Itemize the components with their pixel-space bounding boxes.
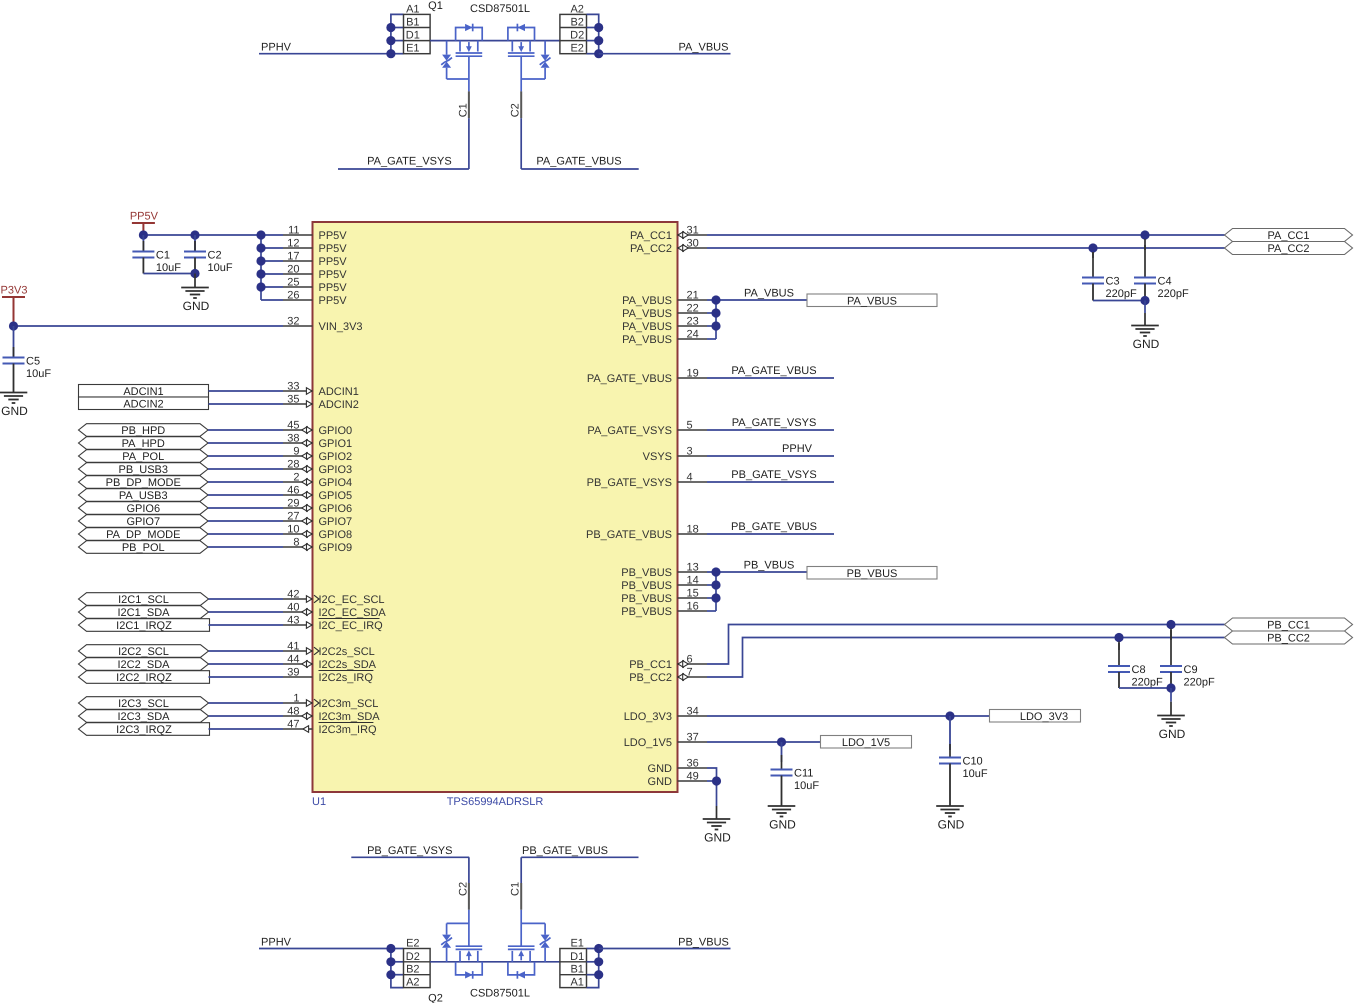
wire ADCIN1 (209, 390, 284, 392)
Q1 left pin box (404, 3, 431, 54)
svg-text:PP5V: PP5V (319, 295, 348, 307)
svg-text:C4: C4 (1158, 276, 1172, 288)
wire PPHV stub (707, 455, 834, 457)
svg-text:E1: E1 (406, 43, 419, 55)
svg-text:PB_GATE_VBUS: PB_GATE_VBUS (731, 521, 817, 533)
wire GPIO6 (208, 507, 283, 509)
svg-text:E2: E2 (570, 43, 583, 55)
junction dots PB_CC (1114, 620, 1175, 642)
svg-text:PA_GATE_VBUS: PA_GATE_VBUS (731, 365, 816, 377)
wire PA_USB3 (208, 494, 283, 496)
net flag PB_POL (79, 541, 209, 554)
svg-text:B1: B1 (406, 17, 419, 29)
junction dots Q2 left bus (386, 944, 395, 979)
wire PB_HPD (208, 429, 283, 431)
pin 49 GND (right) (648, 771, 707, 789)
svg-text:I2C3_SDA: I2C3_SDA (118, 711, 171, 723)
svg-text:14: 14 (687, 575, 699, 587)
svg-text:47: 47 (287, 719, 299, 731)
net flag I2C3_SDA (79, 710, 209, 723)
pin 33 ADCIN1 (left) (283, 381, 359, 399)
svg-text:13: 13 (687, 562, 699, 574)
svg-text:I2C3m_SCL: I2C3m_SCL (319, 698, 379, 710)
svg-text:15: 15 (687, 588, 699, 600)
svg-text:PA_CC1: PA_CC1 (1268, 230, 1310, 242)
pin 23 PA_VBUS (right) (622, 316, 707, 334)
svg-text:GPIO1: GPIO1 (319, 438, 353, 450)
svg-text:16: 16 (687, 601, 699, 613)
svg-text:PB_GATE_VSYS: PB_GATE_VSYS (367, 845, 452, 857)
pin 38 GPIO1 (left) (283, 433, 352, 451)
svg-text:220pF: 220pF (1184, 677, 1215, 689)
net flag I2C2_IRQZ (79, 671, 210, 684)
svg-text:PB_VBUS: PB_VBUS (847, 568, 898, 580)
svg-text:PB_VBUS: PB_VBUS (678, 936, 729, 948)
svg-text:PB_POL: PB_POL (122, 542, 165, 554)
svg-text:C2: C2 (208, 250, 222, 262)
Q1 TVS right (521, 41, 550, 79)
pin 25 PP5V (left) (283, 277, 347, 295)
svg-text:36: 36 (687, 758, 699, 770)
svg-text:11: 11 (288, 225, 299, 237)
svg-text:PPHV: PPHV (261, 936, 292, 948)
svg-text:20: 20 (287, 264, 299, 276)
pin 20 PP5V (left) (283, 264, 347, 282)
wire PB_CC2 (707, 638, 1225, 678)
svg-text:PP5V: PP5V (130, 211, 159, 223)
pin 14 PB_VBUS (right) (621, 575, 707, 593)
svg-text:PP5V: PP5V (319, 243, 348, 255)
svg-text:46: 46 (287, 485, 299, 497)
svg-text:C2: C2 (457, 882, 469, 896)
net flag I2C1_IRQZ (79, 619, 210, 632)
svg-text:21: 21 (687, 290, 699, 302)
pin 2 GPIO4 (left) (283, 472, 352, 490)
svg-text:PB_GATE_VSYS: PB_GATE_VSYS (587, 477, 672, 489)
svg-text:PB_DP_MODE: PB_DP_MODE (106, 477, 181, 489)
svg-text:PA_HPD: PA_HPD (122, 438, 165, 450)
svg-text:41: 41 (287, 641, 299, 653)
power port P3V3 (1, 285, 28, 327)
svg-text:C1: C1 (156, 250, 170, 262)
svg-text:19: 19 (687, 368, 699, 380)
svg-text:PA_VBUS: PA_VBUS (622, 321, 672, 333)
pin 12 PP5V (left) (283, 238, 347, 256)
wire PB_VBUS bus (707, 572, 807, 611)
wire C1-C2 ground join (143, 269, 199, 278)
svg-text:D1: D1 (406, 30, 420, 42)
svg-text:PA_CC2: PA_CC2 (1268, 243, 1310, 255)
junction dots PB_VBUS (711, 567, 720, 602)
svg-text:GPIO7: GPIO7 (126, 516, 160, 528)
svg-text:D2: D2 (570, 30, 584, 42)
svg-text:18: 18 (687, 524, 699, 536)
ground GND under C10 (936, 806, 964, 832)
svg-text:I2C_EC_SCL: I2C_EC_SCL (319, 594, 385, 606)
pin 46 GPIO5 (left) (283, 485, 352, 503)
svg-text:27: 27 (287, 511, 299, 523)
pin 7 PB_CC2 (right) (629, 667, 707, 685)
wire PA_GATE_VBUS (521, 168, 639, 170)
svg-text:PB_GATE_VBUS: PB_GATE_VBUS (586, 529, 672, 541)
svg-text:22: 22 (687, 303, 699, 315)
svg-text:C1: C1 (457, 103, 469, 117)
wire C8-C9 ground join (1119, 683, 1176, 692)
svg-text:PB_VBUS: PB_VBUS (621, 580, 672, 592)
pin 5 PA_GATE_VSYS (right) (587, 420, 707, 438)
wire PB_GATE_VBUS (521, 856, 638, 858)
Q1 right pin box (560, 3, 587, 54)
pin 28 GPIO3 (left) (283, 459, 352, 477)
pin 18 PB_GATE_VBUS (right) (586, 524, 707, 542)
wire PB_POL (208, 546, 283, 548)
net flag PA_HPD (79, 437, 209, 450)
svg-text:PA_CC1: PA_CC1 (630, 230, 672, 242)
pin 35 ADCIN2 (left) (283, 394, 359, 412)
svg-text:PA_USB3: PA_USB3 (119, 490, 168, 502)
wire PB_DP_MODE (208, 481, 283, 483)
Q2 TVS right (521, 923, 550, 961)
svg-text:PB_GATE_VSYS: PB_GATE_VSYS (731, 469, 816, 481)
wire PP5V (143, 235, 283, 300)
capacitor C11 10uF (771, 742, 820, 806)
svg-text:GND: GND (769, 818, 796, 832)
svg-text:CSD87501L: CSD87501L (470, 3, 530, 15)
net flag PB_USB3 (79, 463, 209, 476)
svg-text:PB_CC1: PB_CC1 (1267, 620, 1310, 632)
ground GND under C8 C9 (1157, 688, 1185, 741)
svg-text:I2C2_IRQZ: I2C2_IRQZ (116, 672, 172, 684)
wire LDO_3V3 (707, 711, 990, 720)
ground GND under C2 (181, 274, 209, 314)
wire I2C2_IRQZ (209, 676, 284, 678)
svg-text:C1: C1 (510, 882, 522, 896)
net label box PA_VBUS (807, 294, 937, 307)
svg-text:C2: C2 (510, 103, 522, 117)
svg-text:PB_HPD: PB_HPD (121, 425, 165, 437)
svg-text:PP5V: PP5V (319, 230, 348, 242)
svg-text:B1: B1 (570, 964, 583, 976)
wire I2C3_IRQZ (209, 728, 284, 730)
capacitor C8 220pF (1108, 642, 1163, 689)
svg-text:42: 42 (287, 589, 299, 601)
svg-text:10uF: 10uF (156, 262, 181, 274)
pin 41 I2C2s_SCL (left) (283, 641, 375, 659)
svg-text:PA_POL: PA_POL (122, 451, 164, 463)
wire PPHV to Q2 (259, 948, 391, 950)
pin 21 PA_VBUS (right) (622, 290, 707, 308)
svg-text:E1: E1 (570, 938, 583, 950)
svg-text:GND: GND (938, 818, 965, 832)
pin 32 VIN_3V3 (left) (283, 316, 363, 334)
svg-text:PB_CC2: PB_CC2 (629, 672, 672, 684)
wire LDO_1V5 (707, 737, 821, 746)
net label box ADCIN1 (79, 385, 209, 398)
svg-text:I2C3_IRQZ: I2C3_IRQZ (116, 724, 172, 736)
svg-text:GND: GND (648, 776, 673, 788)
svg-text:I2C2s_SCL: I2C2s_SCL (319, 646, 375, 658)
svg-text:PPHV: PPHV (261, 42, 292, 54)
wire I2C1_SCL (209, 598, 284, 600)
svg-text:10: 10 (287, 524, 299, 536)
wire PB_CC1 (707, 625, 1225, 665)
svg-text:C9: C9 (1184, 664, 1198, 676)
svg-text:29: 29 (287, 498, 299, 510)
svg-text:PP5V: PP5V (319, 282, 348, 294)
svg-text:A2: A2 (570, 3, 583, 15)
svg-text:GND: GND (704, 831, 731, 845)
wire PB_VBUS (599, 948, 731, 950)
net flag GPIO6 (79, 502, 209, 515)
svg-text:CSD87501L: CSD87501L (470, 988, 530, 1000)
net flag PB_CC2 (1225, 631, 1353, 645)
transistor Q2 CSD87501L designators (428, 988, 530, 1005)
net flag I2C1_SCL (79, 593, 209, 606)
net flag I2C2_SCL (79, 645, 209, 658)
net label box PB_VBUS (807, 567, 937, 580)
svg-text:C10: C10 (963, 756, 983, 768)
pin 11 PP5V (left) (283, 225, 347, 243)
svg-text:I2C2_SDA: I2C2_SDA (118, 659, 171, 671)
wire PA_GATE_VSYS (338, 168, 469, 170)
pin 37 LDO_1V5 (right) (624, 732, 707, 750)
net label box LDO_1V5 (821, 736, 912, 749)
svg-text:GPIO0: GPIO0 (319, 425, 353, 437)
svg-text:PP5V: PP5V (319, 256, 348, 268)
svg-text:9: 9 (293, 446, 299, 458)
svg-text:26: 26 (287, 290, 299, 302)
Q2 MOSFET left (456, 946, 483, 979)
junction dots Q1 right bus (594, 23, 603, 58)
svg-text:24: 24 (687, 329, 699, 341)
svg-text:37: 37 (687, 732, 699, 744)
net label box ADCIN2 (79, 397, 209, 410)
wire Q2 left pin bus (391, 949, 404, 988)
svg-text:220pF: 220pF (1158, 288, 1189, 300)
svg-text:GND: GND (1, 404, 28, 418)
wire PB_GATE_VSYS (351, 856, 469, 858)
net flag PA_CC2 (1225, 242, 1353, 256)
net flag I2C3_SCL (79, 697, 209, 710)
wire PA_GATE_VBUS stub (707, 377, 834, 379)
capacitor C10 10uF (939, 716, 988, 806)
svg-text:25: 25 (287, 277, 299, 289)
net flag I2C3_IRQZ (79, 723, 210, 736)
net flag PB_CC1 (1225, 618, 1353, 632)
Q2 MOSFET right (508, 946, 535, 979)
ground GND under C5 (0, 393, 28, 419)
svg-text:I2C1_IRQZ: I2C1_IRQZ (116, 620, 172, 632)
svg-text:33: 33 (287, 381, 299, 393)
svg-text:PP5V: PP5V (319, 269, 348, 281)
svg-text:TPS65994ADRSLR: TPS65994ADRSLR (447, 796, 544, 808)
svg-text:PA_VBUS: PA_VBUS (847, 295, 897, 307)
svg-text:PA_VBUS: PA_VBUS (622, 295, 672, 307)
wire GPIO7 (208, 520, 283, 522)
svg-text:48: 48 (287, 706, 299, 718)
svg-text:PA_GATE_VSYS: PA_GATE_VSYS (367, 156, 452, 168)
svg-text:3: 3 (687, 446, 693, 458)
svg-text:A2: A2 (406, 977, 419, 989)
wire PB_GATE_VSYS stub (707, 481, 834, 483)
capacitor C9 220pF (1160, 629, 1215, 689)
svg-text:A1: A1 (570, 977, 583, 989)
pin C2 of Q1 (510, 56, 522, 169)
wire C3-C4 ground join (1093, 296, 1150, 305)
svg-text:U1: U1 (312, 796, 326, 808)
svg-text:40: 40 (287, 602, 299, 614)
svg-text:GND: GND (648, 763, 673, 775)
svg-text:I2C2s_IRQ: I2C2s_IRQ (319, 672, 374, 684)
pin 4 PB_GATE_VSYS (right) (587, 472, 707, 490)
pin 6 PB_CC1 (right) (629, 654, 707, 672)
svg-text:GPIO5: GPIO5 (319, 490, 353, 502)
svg-text:4: 4 (687, 472, 693, 484)
svg-text:35: 35 (287, 394, 299, 406)
svg-text:1: 1 (293, 693, 299, 705)
junction dots PA_CC (1088, 230, 1149, 252)
wire PA_VBUS bus (707, 300, 807, 339)
net flag PB_HPD (79, 424, 209, 437)
svg-text:VIN_3V3: VIN_3V3 (319, 321, 363, 333)
svg-text:45: 45 (287, 420, 299, 432)
svg-text:PB_CC1: PB_CC1 (629, 659, 672, 671)
svg-text:D2: D2 (406, 951, 420, 963)
svg-text:LDO_3V3: LDO_3V3 (624, 711, 672, 723)
svg-text:LDO_1V5: LDO_1V5 (842, 737, 890, 749)
pin 44 I2C2s_SDA (left) (283, 654, 377, 672)
svg-text:ADCIN1: ADCIN1 (319, 386, 359, 398)
svg-text:32: 32 (287, 316, 299, 328)
svg-text:C11: C11 (794, 768, 813, 780)
junction dots Q2 right bus (594, 944, 603, 979)
wire ADCIN2 (209, 403, 284, 405)
svg-text:PA_VBUS: PA_VBUS (679, 42, 729, 54)
svg-text:GPIO2: GPIO2 (319, 451, 353, 463)
svg-text:5: 5 (687, 420, 693, 432)
svg-text:PA_DP_MODE: PA_DP_MODE (106, 529, 180, 541)
svg-text:B2: B2 (406, 964, 419, 976)
junction dots PP5V (139, 230, 266, 291)
IC U1 TPS65994ADRSLR body (312, 222, 678, 808)
Q1 MOSFET right (508, 24, 535, 57)
wire I2C2_SCL (209, 650, 284, 652)
svg-text:PB_VBUS: PB_VBUS (621, 606, 672, 618)
svg-text:PB_CC2: PB_CC2 (1267, 633, 1310, 645)
pin 22 PA_VBUS (right) (622, 303, 707, 321)
wire Q2 drain interconnect (430, 961, 560, 963)
pin 16 PB_VBUS (right) (621, 601, 707, 619)
wire PA_DP_MODE (208, 533, 283, 535)
svg-text:A1: A1 (406, 3, 419, 15)
net flag PB_DP_MODE (79, 476, 209, 489)
svg-text:PA_CC2: PA_CC2 (630, 243, 672, 255)
junction dots PA_VBUS (711, 295, 720, 330)
wire Q1 drain interconnect (430, 40, 560, 42)
ground GND under C11 (768, 806, 796, 832)
svg-text:GND: GND (1159, 727, 1186, 741)
wire Q1 right pin bus (587, 14, 599, 53)
svg-text:43: 43 (287, 615, 299, 627)
junction dots Q1 left bus (386, 23, 395, 58)
svg-text:I2C1_SCL: I2C1_SCL (118, 594, 169, 606)
svg-text:GPIO3: GPIO3 (319, 464, 353, 476)
pin 48 I2C3m_SDA (left) (283, 706, 380, 724)
Q1 TVS left (441, 41, 469, 79)
pin C2 of Q2 (457, 857, 469, 946)
svg-text:34: 34 (687, 706, 699, 718)
capacitor C2 10uF (184, 235, 233, 274)
wire PA_CC1 (707, 234, 1225, 236)
net flag PA_POL (79, 450, 209, 463)
svg-text:I2C_EC_SDA: I2C_EC_SDA (319, 607, 387, 619)
pin 31 PA_CC1 (right) (630, 225, 707, 243)
pin 13 PB_VBUS (right) (621, 562, 707, 580)
svg-text:I2C1_SDA: I2C1_SDA (118, 607, 171, 619)
svg-text:PA_VBUS: PA_VBUS (622, 334, 672, 346)
svg-text:PA_GATE_VSYS: PA_GATE_VSYS (732, 417, 817, 429)
svg-text:GPIO9: GPIO9 (319, 542, 353, 554)
svg-text:C5: C5 (26, 356, 40, 368)
svg-text:ADCIN1: ADCIN1 (123, 386, 163, 398)
pin 45 GPIO0 (left) (283, 420, 352, 438)
pin 15 PB_VBUS (right) (621, 588, 707, 606)
pin 27 GPIO7 (left) (283, 511, 352, 529)
pin 8 GPIO9 (left) (283, 537, 352, 555)
pin 3 VSYS (right) (643, 446, 707, 464)
pin 26 PP5V (left) (283, 290, 347, 308)
svg-text:Q1: Q1 (428, 0, 443, 12)
pin 34 LDO_3V3 (right) (624, 706, 707, 724)
wire I2C1_IRQZ (209, 624, 284, 626)
capacitor C5 10uF (3, 326, 52, 393)
svg-text:12: 12 (287, 238, 299, 250)
svg-text:I2C2_SCL: I2C2_SCL (118, 646, 169, 658)
svg-text:GPIO6: GPIO6 (319, 503, 353, 515)
svg-text:LDO_1V5: LDO_1V5 (624, 737, 672, 749)
svg-text:23: 23 (687, 316, 699, 328)
svg-text:I2C3m_IRQ: I2C3m_IRQ (319, 724, 378, 736)
svg-text:38: 38 (287, 433, 299, 445)
wire PA_VBUS (599, 53, 731, 55)
capacitor C3 220pF (1082, 252, 1137, 301)
wire PB_USB3 (208, 468, 283, 470)
svg-text:17: 17 (287, 251, 299, 263)
svg-text:PB_VBUS: PB_VBUS (621, 593, 672, 605)
svg-text:10uF: 10uF (794, 780, 819, 792)
wire PA_CC2 (707, 247, 1225, 249)
power port PP5V (130, 211, 159, 236)
svg-text:44: 44 (287, 654, 299, 666)
svg-text:PB_USB3: PB_USB3 (118, 464, 168, 476)
pin 36 GND (right) (648, 758, 707, 776)
pin 42 I2C_EC_SCL (left) (283, 589, 385, 607)
svg-text:GPIO4: GPIO4 (319, 477, 353, 489)
svg-text:PA_VBUS: PA_VBUS (622, 308, 672, 320)
net flag I2C2_SDA (79, 658, 209, 671)
svg-text:28: 28 (287, 459, 299, 471)
svg-text:I2C3_SCL: I2C3_SCL (118, 698, 169, 710)
wire Q2 right pin bus (587, 949, 599, 988)
svg-text:PA_GATE_VSYS: PA_GATE_VSYS (587, 425, 672, 437)
svg-text:I2C_EC_IRQ: I2C_EC_IRQ (319, 620, 384, 632)
svg-text:GND: GND (183, 299, 210, 313)
wire I2C3_SDA (209, 715, 284, 717)
pin 17 PP5V (left) (283, 251, 347, 269)
svg-text:LDO_3V3: LDO_3V3 (1020, 711, 1068, 723)
wire PA_HPD (208, 442, 283, 444)
svg-text:B2: B2 (570, 17, 583, 29)
